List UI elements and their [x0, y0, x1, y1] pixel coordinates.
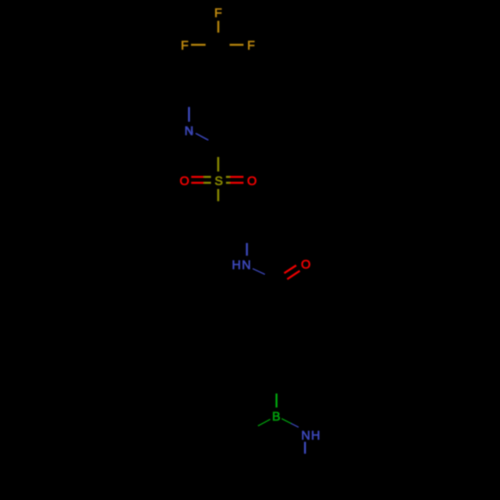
bond C2-S1 vertical above S (S half): [217, 157, 219, 172]
bond C7-F3 horizontal (F half): [230, 44, 244, 46]
bond N1-C2 diagonal (N half): [196, 133, 208, 140]
bond C7-F1 vertical (F half): [217, 21, 219, 33]
svg-text:O: O: [247, 174, 257, 188]
carbon skeleton (invisible): ethyl chain and carbonyl carbon: [218, 213, 276, 318]
svg-text:F: F: [214, 6, 222, 20]
double bond S1=O1 lower line (O half red): [191, 182, 204, 184]
bond N3-C18 vertical below NH (N half): [304, 442, 306, 454]
double bond S1=O1 upper line (S half olive): [204, 176, 211, 178]
svg-text:S: S: [215, 174, 223, 188]
bond C9-N2 vertical into amide N (N half): [246, 243, 248, 256]
bond C7-F2 horizontal (F half): [191, 44, 206, 46]
bond N1-C6 vertical (N half): [188, 107, 190, 121]
svg-text:O: O: [301, 258, 311, 272]
svg-text:NH: NH: [301, 428, 321, 442]
carbon skeleton (black on black, invisible): pyridine ring: [189, 76, 250, 147]
double bond S1=O1 lower line (S half olive): [204, 182, 211, 184]
bond B1-N3 diagonal down-right (N half): [291, 424, 298, 428]
double bond C10=O3 upper line (O half): [284, 265, 296, 273]
double bond S1=O2 lower line (S half olive): [226, 182, 230, 184]
svg-text:HN: HN: [232, 258, 252, 272]
double bond S1=O2 upper line (S half olive): [226, 176, 230, 178]
double bond S1=O2 lower line (O half red): [230, 182, 244, 184]
bond N2-C10 diagonal (N half): [253, 269, 265, 275]
double bond C10=O3 lower line (O half): [287, 271, 300, 279]
svg-text:F: F: [181, 39, 189, 53]
svg-text:B: B: [272, 410, 280, 424]
svg-text:O: O: [180, 174, 190, 188]
bond C14-B1 vertical into boron (B half): [276, 394, 278, 408]
double bond S1=O1 upper line (O half red): [191, 176, 204, 178]
carbon skeleton (invisible): benzene ring of benzamide: [251, 318, 303, 378]
svg-text:N: N: [185, 124, 194, 138]
svg-text:F: F: [247, 39, 255, 53]
double bond S1=O2 upper line (O half red): [230, 176, 244, 178]
bond B1-N3 diagonal down-right (B half): [282, 419, 292, 424]
carbon skeleton (invisible): azaborinane ring carbons: [247, 426, 305, 482]
bond B1-C17 diagonal down-left (B half): [258, 419, 270, 425]
bond S1-C8 vertical below S (S half): [217, 189, 219, 201]
bond ring C5 - CF3 carbon (carbon halves, invisible): [218, 45, 219, 76]
